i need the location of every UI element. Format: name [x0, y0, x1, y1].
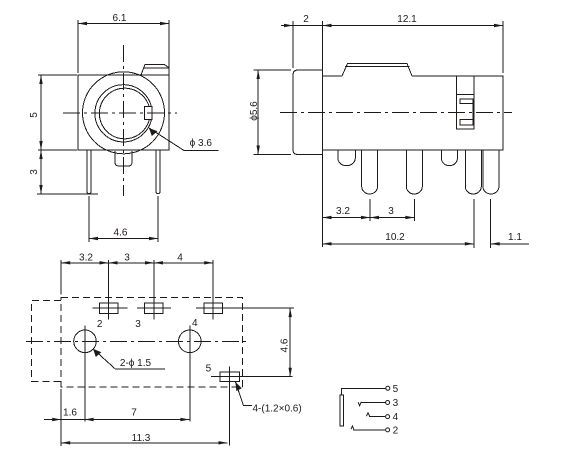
front left pin [87, 150, 91, 194]
side barrel [293, 70, 323, 155]
svg-text:2: 2 [97, 319, 103, 330]
side pin B [362, 150, 378, 194]
svg-text:3: 3 [29, 169, 40, 175]
dimension 1.1 [491, 199, 529, 248]
front right pin [156, 150, 160, 194]
front view square body [78, 75, 169, 150]
side horizontal centerline [280, 112, 512, 114]
dimension 3.2 side [323, 151, 371, 247]
svg-text:3.2: 3.2 [336, 206, 350, 217]
svg-text:1.6: 1.6 [63, 408, 77, 419]
svg-text:2: 2 [393, 426, 399, 437]
svg-text:3: 3 [135, 319, 141, 330]
dimension 1.6 [44, 389, 85, 446]
svg-text:1.1: 1.1 [508, 232, 522, 243]
svg-text:7: 7 [131, 408, 137, 419]
svg-text:5: 5 [29, 112, 40, 118]
dimension 7 [85, 408, 190, 422]
switch comb detail [456, 76, 474, 129]
side stub A [338, 150, 356, 166]
svg-text:4.6: 4.6 [114, 228, 128, 239]
ring circle inner [99, 88, 150, 139]
label 2-phi1.5 with leader [93, 349, 165, 369]
dimension 4 bottom [154, 253, 213, 265]
svg-text:2-ϕ 1.5: 2-ϕ 1.5 [120, 358, 152, 369]
pad 5 [211, 367, 292, 446]
mounting hole left [74, 326, 97, 422]
svg-text:5: 5 [393, 384, 399, 395]
dimension 3 side [370, 199, 414, 221]
pad 3 [137, 260, 171, 320]
dimension 2 [281, 14, 323, 74]
side stub D [441, 150, 457, 166]
pin 2 wire with contact tick [351, 426, 399, 437]
svg-text:5: 5 [206, 364, 212, 375]
pin 4 wire with contact tick [366, 412, 398, 423]
bottom nub [115, 151, 132, 166]
svg-text:3.2: 3.2 [79, 253, 93, 264]
svg-text:4: 4 [192, 318, 198, 329]
dimension 5 [29, 75, 77, 150]
svg-text:3: 3 [388, 206, 394, 217]
sleeve contact bar [340, 395, 344, 426]
notch rectangle in bore [145, 107, 153, 120]
front horizontal centerline [63, 112, 177, 114]
dimension 12.1 [323, 14, 504, 73]
dimension 3 [29, 150, 98, 194]
dimension 3 bottom [109, 253, 155, 265]
svg-text:4-(1.2×0.6): 4-(1.2×0.6) [253, 404, 302, 415]
bottom view centerline [26, 340, 247, 342]
dimension 11.3 [61, 433, 227, 445]
ring circle outer [95, 85, 152, 142]
svg-text:6.1: 6.1 [113, 13, 127, 24]
svg-text:10.2: 10.2 [385, 232, 405, 243]
label 4-(1.2x0.6) with leader [236, 382, 302, 415]
svg-text:3: 3 [124, 253, 130, 264]
dimension 3.2 bottom [61, 253, 108, 295]
top-right bump on body [141, 65, 169, 76]
dimension 10.2 [323, 199, 474, 248]
svg-text:12.1: 12.1 [397, 14, 417, 25]
dimension 6.1 [78, 13, 169, 73]
svg-text:2: 2 [303, 14, 309, 25]
body dashed outline [61, 298, 242, 388]
dimension 4.6 bottom [230, 308, 294, 377]
side pin C [406, 150, 422, 194]
side pin F [483, 150, 499, 194]
pin 5 wire [342, 384, 399, 395]
barrel dashed outline [32, 301, 62, 382]
pin 3 wire with contact tick [358, 398, 398, 409]
outer circle of jack bushing [83, 72, 165, 154]
svg-text:ϕ 3.6: ϕ 3.6 [190, 138, 213, 149]
dimension phi 5.6 [249, 70, 291, 155]
side pin E [465, 150, 481, 194]
svg-text:4: 4 [177, 253, 183, 264]
label phi 3.6 with leader [149, 128, 219, 151]
svg-text:4.6: 4.6 [280, 338, 291, 352]
svg-text:11.3: 11.3 [132, 433, 151, 444]
pad 2 [92, 260, 127, 320]
pad 4 [196, 260, 231, 320]
side body outline [323, 64, 504, 151]
front vertical centerline [123, 45, 125, 196]
svg-text:4: 4 [393, 412, 399, 423]
mounting hole right [179, 326, 202, 422]
svg-text:ϕ5.6: ϕ5.6 [249, 101, 260, 121]
svg-text:3: 3 [393, 398, 399, 409]
dimension 4.6 front [89, 196, 158, 242]
